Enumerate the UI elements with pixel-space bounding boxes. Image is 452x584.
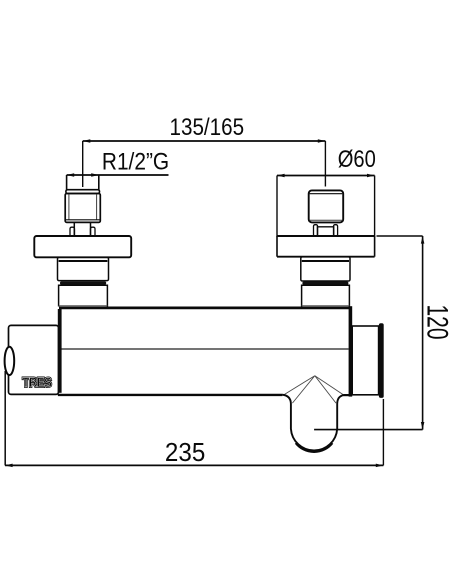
- dimension 135/165: [83, 139, 326, 187]
- svg-text:120: 120: [420, 304, 452, 339]
- svg-text:235: 235: [165, 438, 205, 467]
- right outlet: [352, 326, 378, 395]
- right escutcheon flange: [277, 236, 375, 257]
- TRES logo: [22, 374, 52, 390]
- left tier3: [59, 285, 108, 306]
- left tier3 bottom edge: [59, 305, 108, 307]
- left body joint bar: [58, 309, 62, 393]
- left o-ring band: [60, 281, 106, 284]
- right knob: [309, 190, 344, 222]
- dimension D60: [277, 174, 375, 237]
- left handle cap: [66, 175, 100, 194]
- body mid line: [62, 348, 349, 350]
- left escutcheon flange: [34, 236, 131, 257]
- spout cone lines: [284, 376, 343, 403]
- right tier3 bottom edge: [302, 305, 350, 307]
- right o-ring band: [302, 282, 348, 285]
- spout U outline: [282, 395, 343, 451]
- left handle body: [65, 194, 100, 223]
- svg-text:TRES: TRES: [22, 374, 52, 390]
- right outlet flange: [379, 323, 384, 398]
- left handle stem: [70, 222, 95, 236]
- svg-text:Ø60: Ø60: [338, 146, 376, 173]
- body top edge: [59, 306, 351, 309]
- dimension 120: [314, 236, 424, 430]
- left end box: [9, 325, 59, 394]
- dimension R1/2"G: [67, 173, 169, 177]
- dimension 235: [5, 371, 383, 467]
- svg-text:R1/2”G: R1/2”G: [102, 148, 169, 175]
- right tier2: [301, 257, 350, 281]
- body right end cap: [349, 306, 353, 396]
- left port ellipse: [5, 347, 15, 375]
- right stem: [314, 225, 338, 236]
- left tier2: [58, 257, 109, 280]
- body bottom edge: [58, 394, 283, 396]
- right tier3: [302, 285, 350, 306]
- svg-text:135/165: 135/165: [170, 114, 245, 141]
- spout thick bottom arc: [296, 443, 332, 452]
